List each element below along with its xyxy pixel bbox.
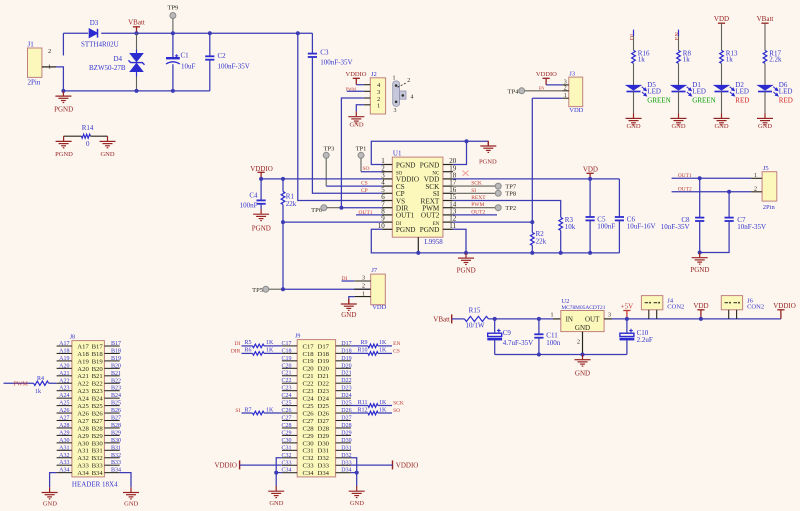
svg-text:CS: CS xyxy=(361,181,368,187)
svg-text:C25: C25 xyxy=(281,401,291,407)
svg-text:VDDIO: VDDIO xyxy=(396,461,419,469)
ground PGND (input) xyxy=(55,91,71,103)
svg-text:TP5: TP5 xyxy=(252,287,263,294)
svg-text:B33: B33 xyxy=(92,463,104,470)
resistor R13 xyxy=(720,50,724,63)
connector J1 xyxy=(28,48,42,77)
LED D1 xyxy=(672,85,692,96)
svg-text:CS: CS xyxy=(393,349,400,355)
svg-text:C17: C17 xyxy=(303,343,315,350)
svg-text:C29: C29 xyxy=(281,430,291,436)
svg-text:D33: D33 xyxy=(318,463,330,470)
svg-text:A26: A26 xyxy=(59,408,69,414)
capacitor C4 xyxy=(260,179,262,201)
svg-text:C34: C34 xyxy=(303,470,315,477)
svg-text:C32: C32 xyxy=(303,455,314,462)
svg-text:B23: B23 xyxy=(92,388,104,395)
svg-text:R6: R6 xyxy=(244,348,251,354)
svg-text:C18: C18 xyxy=(303,351,315,358)
svg-text:100n: 100n xyxy=(546,339,561,347)
svg-text:D23: D23 xyxy=(318,388,330,395)
svg-text:100nF: 100nF xyxy=(240,202,258,210)
ground PGND (R14 left) xyxy=(56,136,72,148)
svg-text:A27: A27 xyxy=(59,416,69,422)
svg-text:SCK: SCK xyxy=(471,181,482,187)
svg-text:D27: D27 xyxy=(341,416,351,422)
svg-text:D30: D30 xyxy=(341,438,351,444)
U2 GND pin2 xyxy=(582,332,584,355)
connector J4 CON2 xyxy=(641,296,662,310)
svg-text:J3: J3 xyxy=(569,70,575,77)
svg-text:GND: GND xyxy=(349,122,363,129)
TVS diode D4 xyxy=(136,33,138,49)
svg-text:VDDIO: VDDIO xyxy=(346,71,367,78)
capacitor C3 xyxy=(311,33,313,53)
svg-text:1K: 1K xyxy=(379,348,387,354)
LED D5 xyxy=(627,85,647,96)
wire PGND bottom loop (pins 10,11) and rail xyxy=(371,229,619,253)
svg-text:C34: C34 xyxy=(281,468,291,474)
svg-text:D30: D30 xyxy=(318,440,330,447)
svg-text:C20: C20 xyxy=(281,363,291,369)
svg-text:4.7uF-35V: 4.7uF-35V xyxy=(503,339,534,347)
svg-text:D32: D32 xyxy=(318,455,330,462)
svg-text:A21: A21 xyxy=(59,371,69,377)
svg-text:A30: A30 xyxy=(77,440,89,447)
svg-text:VDDIO: VDDIO xyxy=(214,461,237,469)
svg-text:B19: B19 xyxy=(92,358,104,365)
svg-text:REXT: REXT xyxy=(471,195,486,201)
svg-text:OUT1: OUT1 xyxy=(678,173,692,179)
svg-text:GND: GND xyxy=(626,123,640,130)
svg-text:D3: D3 xyxy=(90,19,99,27)
svg-text:C26: C26 xyxy=(303,410,315,417)
svg-text:TP8: TP8 xyxy=(505,191,516,198)
svg-text:A26: A26 xyxy=(77,410,89,417)
svg-text:LED: LED xyxy=(692,87,706,95)
wire PGND bottom rail xyxy=(63,90,209,92)
svg-text:CP: CP xyxy=(361,188,368,194)
svg-text:PGND: PGND xyxy=(54,106,73,114)
svg-text:10k: 10k xyxy=(565,223,576,231)
svg-text:22k: 22k xyxy=(536,238,547,246)
svg-text:A18: A18 xyxy=(77,351,89,358)
svg-text:A20: A20 xyxy=(59,363,69,369)
svg-text:100nF-35V: 100nF-35V xyxy=(320,59,352,67)
net label OUT1 / wire (pin8) xyxy=(356,214,382,216)
svg-text:D22: D22 xyxy=(341,378,351,384)
capacitor C1 xyxy=(172,33,174,58)
svg-text:C33: C33 xyxy=(303,463,315,470)
svg-text:GND: GND xyxy=(43,501,57,508)
svg-text:D28: D28 xyxy=(341,423,351,429)
svg-text:C25: C25 xyxy=(303,403,315,410)
svg-text:A33: A33 xyxy=(59,460,69,466)
svg-text:10nF-35V: 10nF-35V xyxy=(661,223,690,231)
svg-text:B18: B18 xyxy=(111,348,121,354)
svg-text:B27: B27 xyxy=(92,418,104,425)
wire EN (pin12) xyxy=(453,221,532,223)
svg-text:B17: B17 xyxy=(111,341,121,347)
svg-text:LED: LED xyxy=(735,87,749,95)
svg-text:A27: A27 xyxy=(77,418,89,425)
svg-text:GND: GND xyxy=(269,500,283,507)
wire VBatt top rail xyxy=(63,32,88,34)
svg-text:C28: C28 xyxy=(303,425,315,432)
svg-text:D23: D23 xyxy=(341,386,351,392)
svg-text:D18: D18 xyxy=(341,348,351,354)
svg-text:A24: A24 xyxy=(77,396,89,403)
svg-text:J7: J7 xyxy=(371,267,378,274)
svg-text:PWM: PWM xyxy=(14,382,29,388)
svg-text:B32: B32 xyxy=(111,453,121,459)
connector J9 header xyxy=(297,340,335,477)
wire TP5 to J7 pin2 xyxy=(283,288,371,290)
wire regulator ground rail xyxy=(495,354,627,356)
svg-text:B24: B24 xyxy=(92,396,104,403)
svg-text:2Pin: 2Pin xyxy=(28,79,41,87)
svg-text:C29: C29 xyxy=(303,433,315,440)
svg-text:D17: D17 xyxy=(341,341,351,347)
svg-text:B24: B24 xyxy=(111,393,121,399)
svg-text:D26: D26 xyxy=(341,408,351,414)
svg-text:1K: 1K xyxy=(379,340,387,346)
svg-text:C23: C23 xyxy=(281,386,291,392)
junction J1-PGND xyxy=(61,89,65,93)
net label PWM / resistor R4 xyxy=(4,382,34,384)
svg-text:+5V: +5V xyxy=(621,303,634,311)
svg-text:VDDIO: VDDIO xyxy=(773,302,796,310)
test point TP2 / wire PWM xyxy=(453,207,495,209)
svg-text:GND: GND xyxy=(575,370,590,378)
svg-text:A29: A29 xyxy=(59,430,69,436)
svg-text:VBatt: VBatt xyxy=(433,316,450,324)
ground PGND (top of U1) xyxy=(487,141,489,146)
svg-text:LED: LED xyxy=(779,87,793,95)
svg-text:CON2: CON2 xyxy=(747,304,764,311)
svg-text:HEADER 18X4: HEADER 18X4 xyxy=(72,481,118,489)
svg-text:VDDIO: VDDIO xyxy=(536,71,557,78)
wire OUT2 to J5 pin2 xyxy=(672,191,752,193)
svg-text:A21: A21 xyxy=(77,373,89,380)
svg-text:A34: A34 xyxy=(59,468,69,474)
svg-text:R7: R7 xyxy=(244,407,251,413)
ground GND (D2) xyxy=(714,113,730,125)
svg-text:EN: EN xyxy=(393,341,400,347)
svg-text:C24: C24 xyxy=(281,393,291,399)
svg-text:PGND: PGND xyxy=(479,159,497,166)
svg-text:J5: J5 xyxy=(763,165,769,172)
svg-text:DI: DI xyxy=(234,341,240,347)
svg-text:B19: B19 xyxy=(111,356,121,362)
LED D6 xyxy=(758,85,778,96)
svg-text:D25: D25 xyxy=(341,401,351,407)
resistor R17 xyxy=(763,50,767,63)
ground GND (J9 right) xyxy=(349,486,365,498)
svg-text:R11: R11 xyxy=(358,400,368,406)
wire J1 pin1 to PGND rail xyxy=(42,66,56,68)
ground GND (D1) xyxy=(671,113,687,125)
svg-text:VDD: VDD xyxy=(693,302,708,310)
svg-text:A20: A20 xyxy=(77,366,89,373)
svg-text:B22: B22 xyxy=(92,381,103,388)
svg-text:PGND: PGND xyxy=(396,161,416,169)
svg-text:1K: 1K xyxy=(266,407,274,413)
junction VBatt xyxy=(135,31,139,35)
svg-text:A34: A34 xyxy=(77,470,89,477)
wire U2 OUT to +5V / jumpers xyxy=(604,318,612,320)
svg-text:A23: A23 xyxy=(59,386,69,392)
svg-text:4: 4 xyxy=(411,94,414,100)
ground GND (D5) xyxy=(626,113,642,125)
svg-text:MC78M05ACDT21: MC78M05ACDT21 xyxy=(561,305,605,311)
svg-text:GND: GND xyxy=(341,311,356,319)
svg-text:B21: B21 xyxy=(111,371,121,377)
svg-text:D31: D31 xyxy=(341,445,351,451)
resistor R2 xyxy=(531,222,533,232)
connector J6 CON2 xyxy=(721,296,742,310)
svg-text:1K: 1K xyxy=(266,340,274,346)
svg-text:TP1: TP1 xyxy=(356,145,367,152)
ground GND (R14 right) xyxy=(100,136,116,148)
svg-text:D19: D19 xyxy=(318,358,330,365)
ground PGND (C4) xyxy=(253,209,269,221)
connector J7 xyxy=(371,274,386,305)
svg-text:U1: U1 xyxy=(393,150,402,158)
svg-text:A25: A25 xyxy=(77,403,89,410)
resistor R15 xyxy=(464,316,488,321)
svg-text:A19: A19 xyxy=(59,356,69,362)
LED D2 xyxy=(715,85,735,96)
svg-text:A22: A22 xyxy=(77,381,89,388)
svg-text:D18: D18 xyxy=(318,351,330,358)
wire D32/D34 to GND (right) xyxy=(351,458,357,486)
wire VDDIO to D33 xyxy=(351,464,393,466)
svg-text:SI: SI xyxy=(471,188,476,194)
svg-text:A29: A29 xyxy=(77,433,89,440)
svg-text:B22: B22 xyxy=(111,378,121,384)
svg-text:C22: C22 xyxy=(281,378,291,384)
svg-text:VDD: VDD xyxy=(714,15,729,23)
svg-text:GND: GND xyxy=(124,501,138,508)
wire C32/C34 to GND (left) xyxy=(276,458,282,486)
ground PGND (below U1) xyxy=(458,253,474,265)
svg-text:D28: D28 xyxy=(318,425,330,432)
svg-text:GND: GND xyxy=(350,500,364,507)
svg-text:J1: J1 xyxy=(28,41,35,49)
svg-text:RED: RED xyxy=(779,96,793,104)
svg-text:VDD: VDD xyxy=(569,107,583,114)
svg-text:STTH4R02U: STTH4R02U xyxy=(81,41,119,49)
svg-text:B27: B27 xyxy=(111,416,121,422)
wire VDDIO to pin3 xyxy=(261,178,382,180)
svg-text:A17: A17 xyxy=(77,343,89,350)
svg-text:R5: R5 xyxy=(244,340,251,346)
wire J2 pin2 to DIR xyxy=(341,98,363,208)
svg-text:SCK: SCK xyxy=(393,401,404,407)
resistor R12 (SO) xyxy=(351,412,368,414)
capacitor C9 xyxy=(494,319,496,333)
wire J8 right GND xyxy=(120,473,131,488)
svg-text:A18: A18 xyxy=(59,348,69,354)
svg-text:R14: R14 xyxy=(82,124,94,132)
svg-text:J9: J9 xyxy=(295,334,300,340)
svg-text:A32: A32 xyxy=(77,455,89,462)
resistor R8 xyxy=(677,50,681,63)
test point TP8 / wire SI xyxy=(453,192,495,194)
svg-text:C33: C33 xyxy=(281,460,291,466)
svg-text:10uF: 10uF xyxy=(181,63,196,71)
svg-text:D4: D4 xyxy=(114,55,123,63)
svg-text:D32: D32 xyxy=(341,453,351,459)
svg-text:OUT2: OUT2 xyxy=(471,209,485,215)
svg-text:D25: D25 xyxy=(318,403,330,410)
resistor R3 xyxy=(559,217,563,230)
svg-text:PGND: PGND xyxy=(55,151,73,158)
svg-text:B17: B17 xyxy=(92,343,104,350)
resistor R9 (EN) xyxy=(351,345,368,347)
svg-text:VBatt: VBatt xyxy=(757,15,774,23)
resistor R11 (SCK) xyxy=(351,405,368,407)
net label PWM (J2 pin3) xyxy=(347,90,364,92)
svg-text:1k: 1k xyxy=(726,56,734,64)
svg-text:PGND: PGND xyxy=(396,226,416,234)
svg-text:D20: D20 xyxy=(318,366,330,373)
svg-text:B34: B34 xyxy=(92,470,104,477)
svg-text:SO: SO xyxy=(393,408,400,414)
svg-text:GND: GND xyxy=(758,123,772,130)
svg-text:2: 2 xyxy=(362,284,365,290)
svg-text:B32: B32 xyxy=(92,455,103,462)
svg-text:B30: B30 xyxy=(111,438,121,444)
svg-text:D34: D34 xyxy=(318,470,330,477)
svg-text:D22: D22 xyxy=(318,381,330,388)
svg-text:B29: B29 xyxy=(92,433,104,440)
svg-text:1K: 1K xyxy=(379,407,387,413)
svg-text:C27: C27 xyxy=(281,416,291,422)
svg-text:B23: B23 xyxy=(111,386,121,392)
svg-text:A33: A33 xyxy=(77,463,89,470)
svg-text:C28: C28 xyxy=(281,423,291,429)
svg-text:2: 2 xyxy=(48,48,51,55)
ground GND (J9 left) xyxy=(268,486,284,498)
svg-text:B28: B28 xyxy=(92,425,104,432)
svg-text:PWM: PWM xyxy=(346,86,356,91)
svg-text:1K: 1K xyxy=(266,348,274,354)
svg-text:IN: IN xyxy=(566,316,573,324)
svg-text:B34: B34 xyxy=(111,468,121,474)
svg-text:C21: C21 xyxy=(303,373,314,380)
ground GND (J8 right) xyxy=(123,487,139,499)
svg-text:100nF-35V: 100nF-35V xyxy=(218,63,250,71)
wire OUT2 stub (pin13) xyxy=(453,214,497,216)
svg-text:GND: GND xyxy=(575,324,590,332)
svg-text:A31: A31 xyxy=(59,445,69,451)
svg-text:3: 3 xyxy=(394,108,397,114)
svg-text:C1: C1 xyxy=(181,52,190,60)
svg-text:A28: A28 xyxy=(59,423,69,429)
svg-text:C23: C23 xyxy=(303,388,315,395)
svg-text:D20: D20 xyxy=(341,363,351,369)
svg-text:A24: A24 xyxy=(59,393,69,399)
svg-text:2Pin: 2Pin xyxy=(763,204,776,211)
svg-text:OUT2: OUT2 xyxy=(678,186,692,192)
wire EN vertical (J3 to R2) xyxy=(531,98,533,222)
svg-text:RED: RED xyxy=(735,96,749,104)
svg-text:1k: 1k xyxy=(638,56,646,64)
svg-text:A19: A19 xyxy=(77,358,89,365)
svg-text:OUT2: OUT2 xyxy=(421,212,440,220)
svg-text:1: 1 xyxy=(377,103,380,110)
svg-text:D29: D29 xyxy=(341,430,351,436)
wire REXT to R3 xyxy=(453,201,561,218)
svg-text:PGND: PGND xyxy=(420,161,440,169)
svg-text:C27: C27 xyxy=(303,418,315,425)
svg-text:1K: 1K xyxy=(379,400,387,406)
resistor R1 xyxy=(281,177,285,181)
svg-text:A31: A31 xyxy=(77,448,89,455)
svg-text:A17: A17 xyxy=(59,341,69,347)
svg-text:TP9: TP9 xyxy=(167,5,178,12)
wire R15 to U2 IN xyxy=(488,318,553,320)
svg-text:SI: SI xyxy=(235,408,240,414)
svg-text:C20: C20 xyxy=(303,366,315,373)
svg-text:VBatt: VBatt xyxy=(128,19,145,27)
svg-text:C21: C21 xyxy=(281,371,291,377)
svg-text:TP3: TP3 xyxy=(324,145,335,152)
svg-text:GND: GND xyxy=(671,123,685,130)
svg-text:B31: B31 xyxy=(92,448,103,455)
svg-text:D29: D29 xyxy=(318,433,330,440)
svg-text:A32: A32 xyxy=(59,453,69,459)
svg-text:3: 3 xyxy=(608,312,611,318)
regulator U2 MC78M05ACDT21 xyxy=(561,311,604,332)
svg-text:R12: R12 xyxy=(357,407,367,413)
svg-text:B26: B26 xyxy=(92,410,104,417)
ground GND (J8 left) xyxy=(42,487,58,499)
svg-text:C4: C4 xyxy=(249,192,258,200)
svg-text:EN: EN xyxy=(539,86,545,91)
svg-text:A22: A22 xyxy=(59,378,69,384)
capacitor C2 xyxy=(209,33,211,56)
svg-text:B21: B21 xyxy=(92,373,103,380)
jumper pads (J2) xyxy=(393,81,406,107)
svg-text:SO: SO xyxy=(363,166,370,172)
wire J1 pin2 to VBatt rail xyxy=(62,33,64,55)
ground GND (D6) xyxy=(757,113,773,125)
svg-text:100nF: 100nF xyxy=(597,223,615,231)
svg-text:B25: B25 xyxy=(111,401,121,407)
svg-text:C32: C32 xyxy=(281,453,291,459)
no-connect cross pin19 xyxy=(463,171,469,176)
svg-text:1: 1 xyxy=(393,76,396,82)
svg-text:OUT1: OUT1 xyxy=(359,210,373,216)
op-amp U1 L9958 xyxy=(392,157,443,237)
svg-text:D21: D21 xyxy=(341,371,351,377)
svg-text:1k: 1k xyxy=(683,56,691,64)
connector J2 xyxy=(370,78,385,114)
svg-text:1: 1 xyxy=(551,312,554,318)
resistor R14 xyxy=(64,135,82,137)
svg-text:2: 2 xyxy=(407,78,410,84)
svg-text:B31: B31 xyxy=(111,445,121,451)
svg-text:1k: 1k xyxy=(35,389,41,395)
svg-text:D24: D24 xyxy=(318,396,330,403)
svg-text:BZW50-27B: BZW50-27B xyxy=(89,64,126,72)
svg-text:GND: GND xyxy=(100,151,114,158)
svg-text:TP4: TP4 xyxy=(508,88,520,95)
test point TP7 / wire SCK xyxy=(453,185,495,187)
